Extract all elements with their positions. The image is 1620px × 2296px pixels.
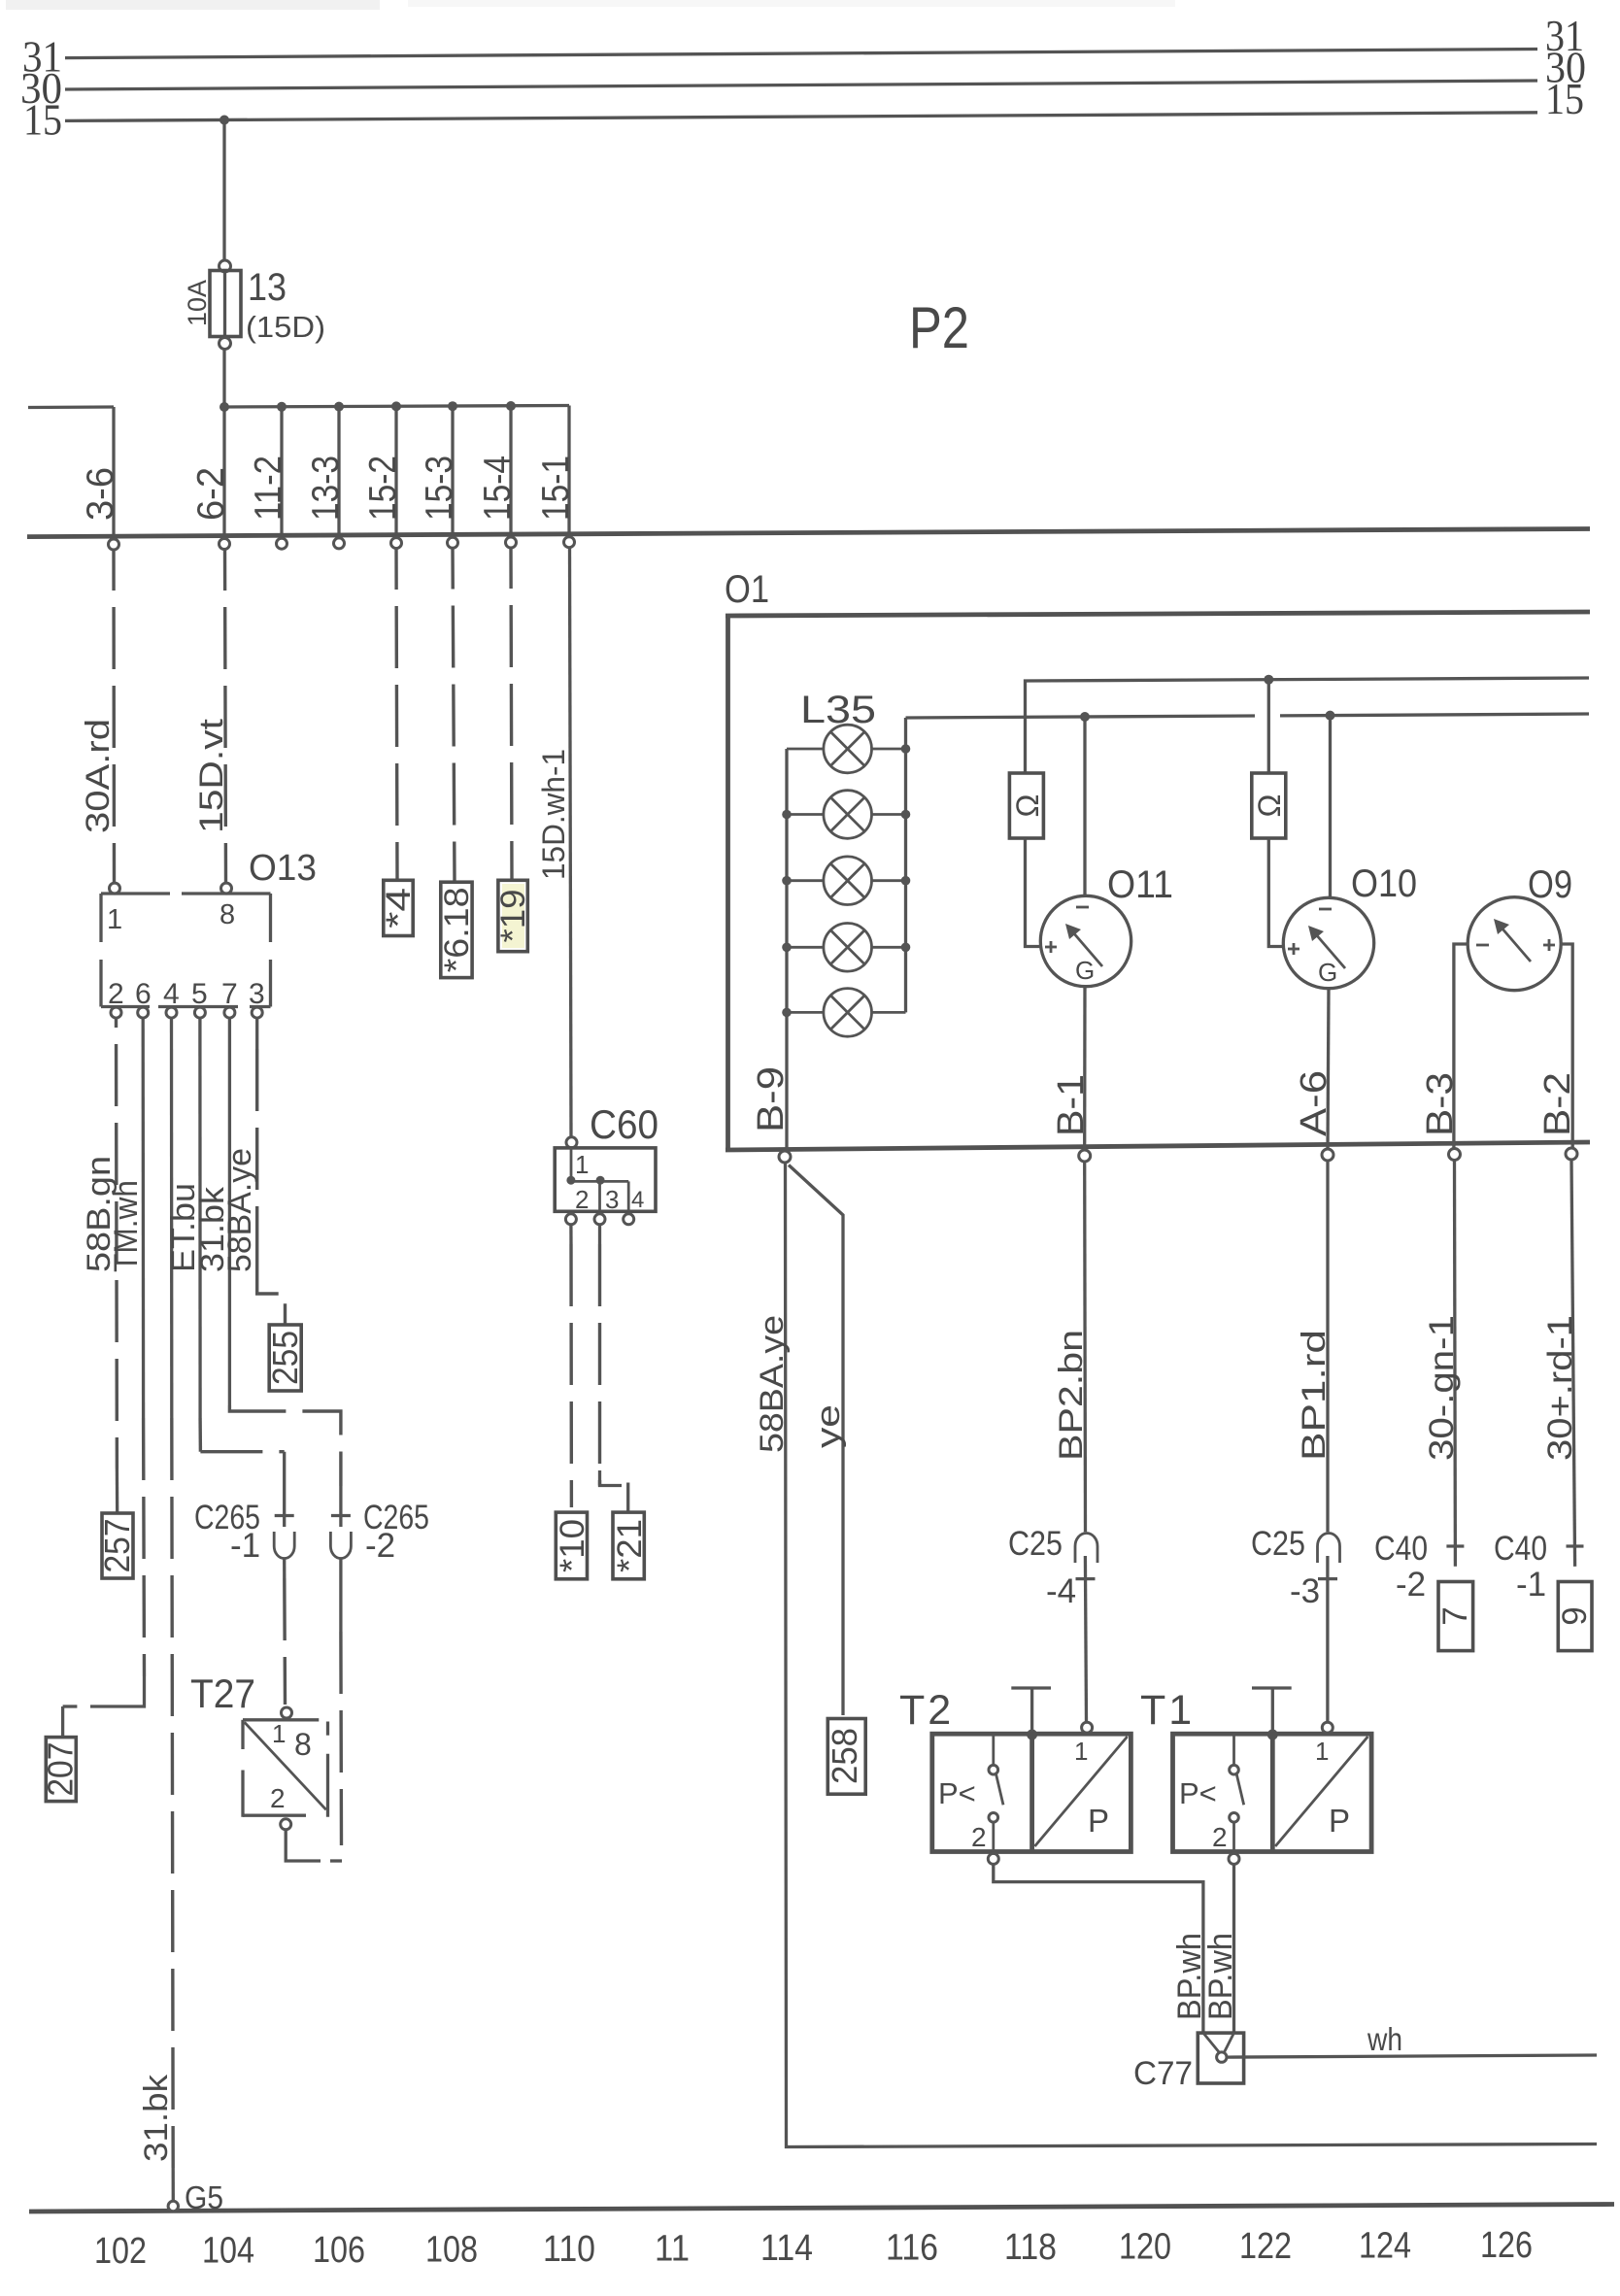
svg-text:15-1: 15-1 bbox=[535, 456, 577, 521]
O9 plus sign bbox=[1543, 944, 1555, 947]
connector C40-2 crossbar bbox=[1446, 1544, 1464, 1547]
svg-text:13: 13 bbox=[248, 266, 287, 309]
svg-text:58BA.ye: 58BA.ye bbox=[754, 1315, 791, 1453]
ground node G5 bbox=[168, 2201, 178, 2211]
svg-text:-1: -1 bbox=[230, 1527, 260, 1565]
wire 15-3 vertical bbox=[451, 406, 454, 534]
O1 box top edge bbox=[726, 612, 1590, 616]
svg-text:O9: O9 bbox=[1528, 863, 1572, 906]
svg-text:30-.gn-1: 30-.gn-1 bbox=[1423, 1315, 1461, 1461]
svg-text:6: 6 bbox=[135, 978, 152, 1010]
svg-text:30A.rd: 30A.rd bbox=[80, 719, 117, 833]
O10 minus sign bbox=[1319, 908, 1332, 911]
svg-text:2: 2 bbox=[575, 1185, 589, 1214]
distribution line from fuse to 15-1 bbox=[224, 406, 569, 408]
wire 13-3 vertical bbox=[337, 407, 340, 534]
svg-text:L35: L35 bbox=[800, 689, 876, 731]
terminal box *6.18 bbox=[441, 882, 472, 977]
T2 pin 1 bbox=[1082, 1722, 1093, 1733]
O11 minus sign bbox=[1076, 906, 1089, 909]
svg-text:2: 2 bbox=[1212, 1822, 1228, 1852]
connector C60 pin 1 bbox=[566, 1137, 577, 1148]
T27 box left edge (dashed) bbox=[241, 1720, 244, 1749]
terminal box 7 bbox=[1438, 1582, 1473, 1651]
svg-text:TM.wh: TM.wh bbox=[108, 1180, 145, 1272]
svg-text:T2: T2 bbox=[899, 1687, 954, 1734]
wire from bus 15 down to fuse 13 bbox=[222, 120, 225, 261]
connector C40-1 crossbar bbox=[1567, 1544, 1584, 1547]
wire T27 pin2 elbow right bbox=[286, 1830, 321, 1861]
svg-text:4: 4 bbox=[163, 978, 180, 1010]
svg-text:8: 8 bbox=[219, 899, 235, 930]
svg-text:-2: -2 bbox=[1396, 1566, 1426, 1604]
wire 30A.rd (dashed) to O13 pin 1 bbox=[112, 550, 116, 882]
O13 bottom pins 2 6 4 5 7 3 bbox=[111, 1007, 121, 1018]
lamp L35-1 bbox=[787, 725, 906, 773]
svg-text:P2: P2 bbox=[909, 295, 969, 360]
svg-text:G: G bbox=[1318, 958, 1337, 987]
wire T1 pin2 to C77 (BP.wh) bbox=[1232, 1864, 1235, 2033]
svg-text:wh: wh bbox=[1367, 2021, 1402, 2057]
wire 31.bk from O13 pin4 to G5 bbox=[170, 1018, 174, 1418]
svg-text:G: G bbox=[1075, 956, 1095, 985]
bus line 15 bbox=[65, 113, 1537, 121]
O1 internal bus 1 bbox=[1026, 678, 1590, 773]
O1 bottom pin B-9 bbox=[779, 1151, 791, 1163]
svg-text:O1: O1 bbox=[725, 568, 769, 611]
junction on bus 15 bbox=[219, 116, 229, 125]
L35 left rail / B-9 wire inside O1 bbox=[785, 749, 788, 1150]
T2 switch contact bbox=[992, 1734, 995, 1765]
junction dots on distribution line bbox=[219, 402, 229, 412]
wire 30-.gn-1 from B-3 bbox=[1453, 1161, 1457, 1567]
svg-text:255: 255 bbox=[265, 1331, 305, 1385]
wire 58B.gn from O13 pin2 (dashed) bbox=[115, 1018, 118, 1469]
connector O13 pin 8 bbox=[221, 883, 232, 894]
connector C265-1 bbox=[283, 1452, 286, 1527]
O1 bottom pin B-3 bbox=[1449, 1149, 1461, 1161]
svg-text:BP2.bn: BP2.bn bbox=[1053, 1330, 1090, 1461]
terminal box *10 bbox=[556, 1512, 587, 1579]
bus line 31 bbox=[65, 50, 1537, 58]
svg-text:2: 2 bbox=[108, 978, 124, 1010]
svg-text:Ω: Ω bbox=[1010, 794, 1045, 818]
terminal box 258 bbox=[827, 1719, 865, 1795]
svg-text:124: 124 bbox=[1359, 2226, 1411, 2267]
svg-text:*10: *10 bbox=[554, 1519, 591, 1572]
T1 switch contact bbox=[1232, 1734, 1235, 1765]
wire elbow TM.wh to box 207 bbox=[90, 1676, 145, 1706]
svg-text:C40: C40 bbox=[1494, 1530, 1547, 1568]
resistor (Ω) for gauge O11 bbox=[1024, 771, 1027, 775]
svg-text:118: 118 bbox=[1004, 2227, 1057, 2268]
connector O13 pin 1 bbox=[110, 883, 120, 894]
wire 15-4 dashed drop bbox=[511, 548, 512, 879]
svg-text:257: 257 bbox=[97, 1519, 137, 1573]
wire 15-1 vertical bbox=[567, 406, 570, 535]
svg-text:15: 15 bbox=[23, 95, 62, 145]
wire fuse bottom to distribution line bbox=[222, 350, 225, 409]
wire elbow 58BA.ye to box 255 bbox=[257, 1253, 286, 1325]
svg-text:126: 126 bbox=[1480, 2225, 1533, 2266]
svg-text:-3: -3 bbox=[1290, 1572, 1320, 1610]
svg-text:C40: C40 bbox=[1374, 1530, 1428, 1568]
O1 internal bus 2 (lamp bus) bbox=[906, 716, 1256, 718]
svg-text:106: 106 bbox=[313, 2230, 365, 2271]
svg-text:7: 7 bbox=[221, 978, 238, 1010]
svg-text:P<: P< bbox=[938, 1776, 976, 1810]
svg-text:11: 11 bbox=[655, 2229, 690, 2270]
T2 diagonal bbox=[1034, 1737, 1127, 1846]
svg-text:1: 1 bbox=[1315, 1737, 1329, 1766]
svg-text:13-3: 13-3 bbox=[305, 456, 347, 521]
L35 right rail bbox=[904, 718, 907, 1012]
wire 15-3 dashed drop bbox=[453, 549, 455, 882]
gauge O11 bbox=[1040, 895, 1131, 986]
connector C60 box bbox=[555, 1148, 656, 1211]
svg-text:9: 9 bbox=[1556, 1606, 1594, 1625]
svg-text:7: 7 bbox=[1436, 1606, 1474, 1625]
wire BP2.bn from B-1 bbox=[1083, 1162, 1087, 1532]
svg-text:15D.vt: 15D.vt bbox=[193, 718, 230, 833]
wire C60 pin3 elbow to *21 bbox=[598, 1225, 601, 1244]
svg-text:(15D): (15D) bbox=[246, 310, 325, 344]
svg-text:15: 15 bbox=[1545, 74, 1584, 123]
wire 15-4 vertical bbox=[509, 406, 512, 534]
svg-text:O13: O13 bbox=[249, 848, 317, 889]
gauge O10 bbox=[1283, 897, 1373, 988]
svg-text:C25: C25 bbox=[1251, 1525, 1305, 1563]
svg-text:2: 2 bbox=[971, 1822, 987, 1852]
O9 needle bbox=[1501, 927, 1531, 962]
lamp L35-2 bbox=[787, 791, 906, 839]
wire O11 minus to lamp bus bbox=[1083, 717, 1086, 895]
wire 30+.rd-1 from B-2 bbox=[1571, 1160, 1575, 1567]
svg-text:30+.rd-1: 30+.rd-1 bbox=[1541, 1315, 1579, 1461]
svg-text:C25: C25 bbox=[1008, 1525, 1063, 1563]
terminal box 9 bbox=[1558, 1582, 1592, 1651]
scan artifact strip (decorative) bbox=[6, 0, 380, 10]
svg-text:258: 258 bbox=[825, 1728, 864, 1784]
svg-text:C77: C77 bbox=[1133, 2055, 1193, 2092]
svg-text:B-9: B-9 bbox=[751, 1066, 792, 1132]
svg-text:8: 8 bbox=[294, 1727, 312, 1762]
svg-text:Ω: Ω bbox=[1252, 794, 1287, 818]
lamp L35-3 bbox=[787, 857, 906, 905]
wire 6-2 vertical bbox=[222, 407, 225, 534]
O1 box left edge bbox=[726, 614, 730, 1152]
gauge O9 bbox=[1468, 897, 1561, 991]
T27 pin 2 bbox=[281, 1819, 291, 1830]
wire BP1.rd from A-6 bbox=[1326, 1161, 1329, 1532]
svg-text:*19: *19 bbox=[494, 890, 532, 943]
O10 plus sign bbox=[1288, 948, 1299, 951]
resistor (Ω) for gauge O10 bbox=[1267, 680, 1270, 773]
connector C25-4 bbox=[1075, 1534, 1097, 1564]
svg-text:116: 116 bbox=[886, 2228, 938, 2269]
wire O9 right terminal to pin B-2 bbox=[1561, 944, 1572, 1149]
O1 box bottom edge bbox=[726, 1142, 1590, 1150]
connector C265-2 bbox=[339, 1486, 342, 1527]
svg-text:15-4: 15-4 bbox=[477, 456, 519, 521]
svg-text:15D.wh-1: 15D.wh-1 bbox=[536, 749, 571, 880]
svg-text:1: 1 bbox=[575, 1150, 589, 1179]
svg-text:1: 1 bbox=[272, 1719, 286, 1748]
svg-text:108: 108 bbox=[425, 2230, 478, 2271]
wire O9 left terminal to pin B-3 bbox=[1454, 944, 1468, 1149]
wire O10 to pin A-6 bbox=[1328, 989, 1329, 1149]
svg-text:207: 207 bbox=[41, 1742, 81, 1797]
svg-text:O11: O11 bbox=[1107, 863, 1173, 906]
wire ye diagonal from B-9 bbox=[789, 1165, 843, 1716]
svg-text:*4: *4 bbox=[380, 888, 418, 929]
svg-text:122: 122 bbox=[1239, 2226, 1292, 2267]
wire 11-2 vertical bbox=[280, 407, 283, 534]
svg-text:-1: -1 bbox=[1516, 1566, 1546, 1604]
T1 pin 2 bbox=[1229, 1853, 1239, 1864]
svg-text:3-6: 3-6 bbox=[80, 467, 121, 521]
wire 15-2 dashed drop bbox=[396, 549, 397, 879]
svg-text:120: 120 bbox=[1119, 2227, 1171, 2268]
svg-text:O10: O10 bbox=[1351, 862, 1417, 905]
svg-text:6-2: 6-2 bbox=[190, 467, 232, 521]
svg-text:-2: -2 bbox=[365, 1527, 395, 1565]
fuse 13 (10A, 15D) bbox=[219, 260, 231, 272]
wire TM.wh from O13 pin6 bbox=[142, 1018, 146, 1418]
svg-text:ye: ye bbox=[810, 1404, 847, 1448]
svg-text:BP1.rd: BP1.rd bbox=[1296, 1330, 1333, 1461]
T2 box bbox=[932, 1734, 1131, 1851]
svg-text:58BA.ye: 58BA.ye bbox=[221, 1148, 258, 1272]
wire resistor to O10 plus terminal bbox=[1268, 838, 1283, 947]
svg-text:P: P bbox=[1088, 1803, 1109, 1839]
O11 needle bbox=[1072, 931, 1102, 966]
T2 pin 2 bbox=[988, 1853, 998, 1864]
connector pins below main bus bbox=[109, 539, 119, 550]
L35 right rail junction dots bbox=[901, 744, 911, 754]
wire 31.bk from O13 pin7 bbox=[228, 1018, 231, 1405]
T27 pin 1 bbox=[282, 1707, 292, 1718]
wire 15D.wh-1 solid drop to C60 bbox=[570, 548, 572, 1137]
wire 15-2 vertical bbox=[394, 406, 397, 534]
svg-text:114: 114 bbox=[760, 2228, 813, 2269]
T1 pin 1 bbox=[1322, 1722, 1333, 1733]
svg-text:*21: *21 bbox=[611, 1519, 649, 1572]
wire O11 to pin B-1 bbox=[1083, 987, 1087, 1150]
svg-text:104: 104 bbox=[202, 2231, 254, 2272]
terminal box *21 bbox=[613, 1512, 644, 1579]
svg-text:15-2: 15-2 bbox=[362, 456, 404, 521]
L35 left rail junction dots bbox=[782, 810, 792, 820]
ground rail bbox=[29, 2205, 1614, 2212]
terminal box 257 bbox=[102, 1513, 133, 1578]
connector C25-3 bbox=[1318, 1534, 1340, 1564]
T1 box bbox=[1173, 1734, 1372, 1851]
T1 divider bbox=[1270, 1734, 1275, 1851]
svg-text:3: 3 bbox=[605, 1185, 619, 1214]
terminal box 255 bbox=[269, 1325, 301, 1391]
svg-text:*6.18: *6.18 bbox=[438, 887, 476, 972]
svg-text:1: 1 bbox=[1074, 1737, 1088, 1766]
wire elbow pin7 to C265-2 bbox=[229, 1405, 341, 1486]
O11 plus sign bbox=[1045, 946, 1057, 949]
C60 bottom pins bbox=[565, 1214, 576, 1225]
svg-text:P: P bbox=[1329, 1803, 1350, 1839]
wire 15D.vt (dashed) to O13 pin 8 bbox=[225, 550, 226, 882]
wire C60 pin2 down to *10 bbox=[569, 1225, 572, 1244]
wire O10 minus to lamp bus bbox=[1329, 716, 1332, 898]
svg-text:T27: T27 bbox=[190, 1671, 255, 1716]
O10 needle bbox=[1315, 933, 1345, 968]
svg-text:-4: -4 bbox=[1046, 1572, 1076, 1610]
T2 actuator bbox=[1011, 1686, 1051, 1689]
svg-text:10A: 10A bbox=[183, 280, 212, 326]
T27 box top edge bbox=[243, 1718, 319, 1721]
svg-text:P<: P< bbox=[1179, 1776, 1217, 1810]
main bus bar bbox=[27, 529, 1590, 537]
terminal box 207 bbox=[46, 1738, 76, 1802]
svg-text:15-3: 15-3 bbox=[419, 456, 460, 521]
svg-text:5: 5 bbox=[191, 978, 208, 1010]
T27 diagonal bbox=[245, 1722, 326, 1809]
wire elbow ET.bu to C265-1 bbox=[200, 1450, 284, 1453]
lamp L35-4 bbox=[787, 924, 906, 972]
svg-text:31.bk: 31.bk bbox=[138, 2074, 175, 2162]
svg-text:11-2: 11-2 bbox=[248, 456, 289, 521]
O1 bottom pin B-2 bbox=[1566, 1148, 1577, 1160]
wire ET.bu from O13 pin5 bbox=[198, 1018, 202, 1418]
C60 internal wiring bbox=[570, 1148, 573, 1182]
svg-text:4: 4 bbox=[631, 1187, 644, 1213]
svg-text:BP.wh: BP.wh bbox=[1202, 1933, 1239, 2020]
svg-text:G5: G5 bbox=[185, 2179, 223, 2215]
svg-text:C60: C60 bbox=[590, 1101, 658, 1147]
svg-text:102: 102 bbox=[94, 2231, 147, 2272]
bus line 30 bbox=[65, 81, 1537, 89]
wire T2 pin2 to C77 bbox=[994, 1864, 1203, 2033]
svg-text:1: 1 bbox=[107, 904, 122, 935]
O9 minus sign bbox=[1476, 944, 1489, 947]
terminal box *19 (highlighted) bbox=[502, 884, 524, 948]
wire wh from C77 bbox=[1227, 2055, 1597, 2057]
T2 divider bbox=[1029, 1734, 1034, 1851]
svg-text:110: 110 bbox=[543, 2229, 595, 2270]
wire resistor to O11 plus terminal bbox=[1026, 838, 1041, 947]
lamp L35-5 bbox=[787, 989, 906, 1037]
wire 3-6 vertical bbox=[112, 407, 115, 534]
T1 actuator bbox=[1252, 1686, 1292, 1689]
O1 bottom pin A-6 bbox=[1322, 1149, 1333, 1161]
svg-text:3: 3 bbox=[249, 978, 265, 1010]
T27 box bottom edge bbox=[243, 1814, 306, 1817]
connector O13 dashed outline bbox=[101, 894, 271, 1007]
terminal box *4 bbox=[384, 880, 413, 935]
wire 58BA.ye from B-9 down bbox=[786, 1163, 1598, 2147]
T1 diagonal bbox=[1275, 1737, 1367, 1846]
O1 bottom pin B-1 bbox=[1079, 1150, 1091, 1162]
T27 box right edge (dashed) bbox=[326, 1722, 329, 1736]
svg-text:T1: T1 bbox=[1140, 1687, 1195, 1734]
connector C77 bbox=[1198, 2033, 1243, 2083]
svg-text:2: 2 bbox=[270, 1783, 286, 1813]
wire stub 3-6 horizontal bbox=[28, 405, 114, 409]
wire 58BA.ye from O13 pin3 bbox=[255, 1018, 258, 1049]
